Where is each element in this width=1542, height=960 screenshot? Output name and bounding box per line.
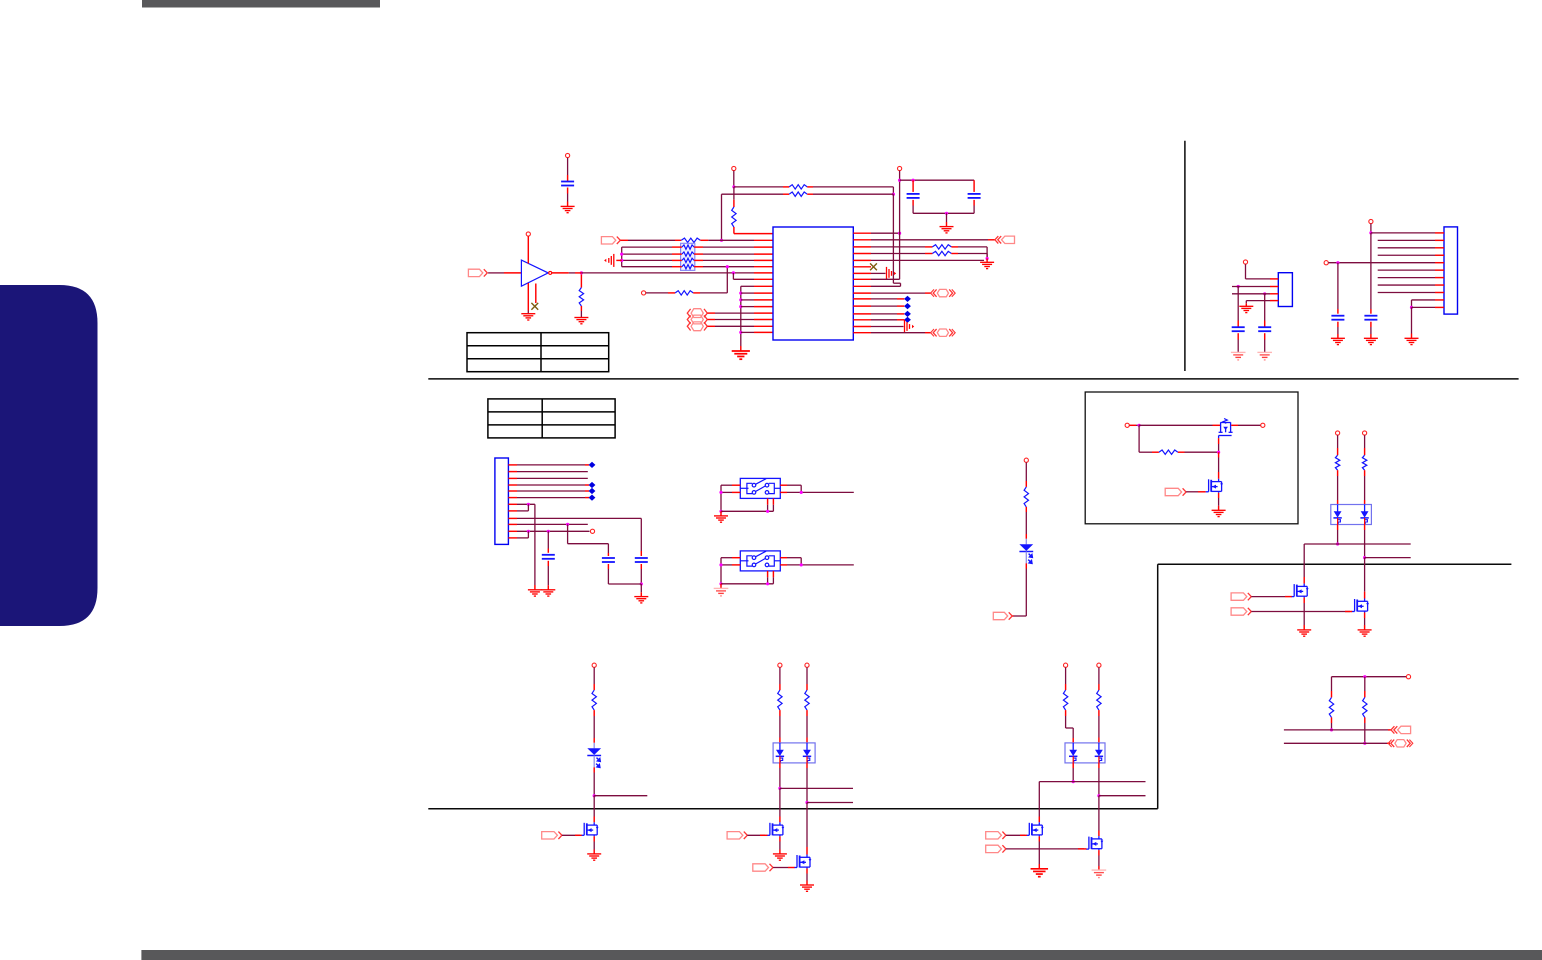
- node D2 vcc b: [1363, 431, 1367, 435]
- junction bus2 y293.1: [739, 292, 742, 295]
- wire C J4a drop: [547, 531, 549, 553]
- junction bus2 y299.9: [739, 298, 742, 301]
- wire RP line 1 right: [694, 246, 773, 248]
- wire LED1 c: [1012, 563, 1026, 616]
- wire bus2 pin 299.9: [741, 299, 773, 301]
- resistor LED2: [592, 690, 596, 710]
- wire J4 stub y531.3: [508, 530, 517, 532]
- node LED1 vcc: [1024, 458, 1028, 462]
- bottom gray footer bar: [141, 950, 1542, 960]
- junction J4 p10: [566, 523, 569, 526]
- wire V4: [1337, 263, 1339, 314]
- wire J4 stub y537.9: [508, 537, 517, 539]
- wire U1 right pin stub y266.8: [853, 266, 871, 268]
- wire diamond pin y313.9: [871, 313, 904, 315]
- transistor Q4 nmos: [1352, 599, 1368, 613]
- ground Q4: [1358, 630, 1372, 636]
- wire BM2 b mid: [1098, 710, 1100, 744]
- junction J3 p1: [1369, 231, 1372, 234]
- wire J4 stub y478.4: [508, 477, 517, 479]
- wire box to Q1: [1139, 424, 1220, 426]
- node J4 p11: [590, 529, 594, 533]
- wire Q7 drain: [806, 803, 808, 855]
- wire Q8 gate: [1006, 834, 1027, 836]
- wire R2 to port: [871, 239, 995, 241]
- junction V2 pin1: [898, 232, 901, 235]
- capacitor C J4b: [602, 558, 615, 562]
- wire Q5 source: [593, 836, 595, 854]
- ground buffer: [521, 314, 535, 320]
- section divider horizontal top: [428, 378, 1518, 380]
- terminal diamond y306.1: [904, 303, 911, 309]
- wire RP line 2 right: [694, 253, 773, 255]
- wire Q2 source: [1218, 493, 1220, 510]
- wire U1 right pin stub y326.5: [853, 326, 871, 328]
- node BM2 vcc b: [1097, 663, 1101, 667]
- revision table 2: [488, 399, 615, 438]
- ground RP rotated: [609, 254, 614, 267]
- wire RP line 3 left: [622, 259, 682, 261]
- wire J4 stub y524.4: [508, 523, 517, 525]
- node buf vcc: [526, 232, 530, 236]
- junction J3 p10: [1410, 306, 1413, 309]
- junction SW2 bottom pin: [766, 582, 769, 585]
- wire LED2 a: [593, 667, 595, 690]
- wire BM1 b top: [806, 667, 808, 690]
- no-connect U1 pin6R: [870, 263, 877, 270]
- terminal J4 p4: [589, 482, 596, 488]
- junction cap mid: [945, 212, 948, 215]
- resistor R pulldown: [579, 288, 583, 307]
- junction D2 b: [1363, 556, 1366, 559]
- junction J2 p3: [1263, 292, 1266, 295]
- resistor RP1: [682, 245, 694, 249]
- wire J4 p7-p8 tie: [517, 504, 528, 511]
- transistor Q8 nmos: [1026, 822, 1042, 836]
- wire Q6 gate: [747, 834, 767, 836]
- wire pin9L to bus: [741, 285, 773, 287]
- wire J4 stub y471.6: [508, 471, 517, 473]
- wire J3 p1: [1371, 232, 1435, 234]
- wire jumper 2: [708, 319, 774, 321]
- node VCC cap pair: [898, 166, 902, 170]
- wire J2 stub y300.6: [1270, 300, 1278, 302]
- ground J3c: [1405, 338, 1419, 344]
- terminal diamond y313.9: [904, 311, 911, 317]
- diode pack D4: [773, 743, 815, 763]
- capacitor C J4c: [635, 558, 648, 562]
- port input LED1: [993, 612, 1007, 619]
- wire R3R4 gnd stub: [986, 259, 988, 263]
- junction J4 p7: [527, 503, 530, 506]
- wire bus2 pin 293.1: [741, 292, 773, 294]
- wire Q9 source: [1098, 850, 1100, 870]
- wire LED2 c: [593, 767, 595, 795]
- wire D2 b down: [1364, 525, 1366, 558]
- wire jog to U1 pin8L: [733, 273, 773, 279]
- wire R1 to V2: [871, 232, 900, 234]
- left navy chapter tab: [0, 285, 98, 626]
- revision table 1: [467, 333, 609, 372]
- wire line2 drop: [721, 194, 723, 240]
- wire buf gnd pins: [528, 283, 536, 314]
- jumper J3: [691, 322, 703, 331]
- wire caps bottom link: [608, 583, 641, 585]
- wire J4 p2: [517, 471, 588, 473]
- connector J4: [495, 458, 509, 544]
- wire jumper 1: [708, 312, 774, 314]
- wire R5 stub: [871, 259, 984, 261]
- node BR vcc: [1406, 675, 1410, 679]
- wire SW1 gnd stub: [720, 511, 722, 516]
- ground pulldown: [574, 318, 588, 324]
- wire J3 pin y240.3: [1378, 239, 1435, 241]
- wire BM1 h2: [807, 802, 853, 804]
- wire pin2 line: [620, 239, 681, 241]
- wire J3 stub y299.9: [1435, 299, 1444, 301]
- ground J4 caps: [634, 597, 648, 603]
- wire BR b down: [1364, 717, 1366, 743]
- wire D2 a down: [1337, 525, 1339, 545]
- ground Q5: [587, 854, 601, 860]
- wire D2 b top: [1364, 435, 1366, 455]
- wire C J4b bottom: [607, 564, 609, 584]
- ground Q9: [1092, 870, 1107, 878]
- wire SW1 left pins: [721, 485, 740, 511]
- port input Q7 gate: [753, 864, 769, 871]
- junction caps bottom: [640, 582, 643, 585]
- connector J3: [1444, 227, 1458, 314]
- wire BM1 b mid: [806, 710, 808, 744]
- resistor R6: [675, 291, 693, 295]
- ground Q2: [1212, 510, 1226, 516]
- wire diamond pin y298.9: [871, 298, 904, 300]
- resistor RP4: [682, 265, 694, 269]
- wire RP line 4 right: [694, 266, 773, 268]
- capacitor C J3b: [1331, 316, 1344, 320]
- port bidir BR2: [1395, 740, 1406, 747]
- node LED2 vcc: [592, 663, 596, 667]
- wire J2 stub y293.8: [1270, 293, 1278, 295]
- wire Q6 drain: [779, 788, 781, 822]
- wire J4 p5: [517, 490, 589, 492]
- wire RP line 3 right: [694, 259, 773, 261]
- diode pack D2: [1331, 505, 1372, 525]
- wire D2 a top: [1337, 435, 1339, 455]
- wire C J2a gnd: [1237, 333, 1239, 352]
- wire line2 RB: [722, 193, 790, 195]
- wire J3 stub y232.9: [1435, 232, 1444, 234]
- section divider vertical top-right: [1184, 141, 1186, 371]
- wire U1 right pin stub y239.8: [853, 239, 871, 241]
- wire C J4a gnd: [547, 561, 549, 590]
- resistor RBM1b: [805, 690, 809, 710]
- switch SW2: [740, 551, 780, 571]
- capacitor C J3a: [1364, 316, 1377, 320]
- transistor Q2 nmos: [1206, 479, 1222, 493]
- wire J4 stub y510.9: [508, 510, 517, 512]
- wire box left: [1129, 424, 1139, 426]
- wire J2 p3: [1232, 293, 1270, 295]
- wire buf output: [552, 272, 773, 274]
- wire U1 right pin stub y246.9: [853, 246, 871, 248]
- wire Q1 gate: [1218, 438, 1220, 452]
- wire LED2 b: [593, 710, 595, 743]
- resistor RD2b: [1362, 455, 1366, 470]
- wire R4 b: [951, 254, 987, 259]
- capacitor C J2b: [1258, 327, 1271, 331]
- terminal diamond y298.9: [904, 296, 911, 302]
- port input Q3 gate: [1231, 593, 1247, 600]
- wire V2 vertical: [871, 180, 900, 279]
- wire V5: [1411, 307, 1413, 338]
- wire Q8 drain: [1038, 782, 1040, 823]
- wire V3: [1370, 233, 1372, 314]
- wire J4 stub y464.9: [508, 464, 517, 466]
- junction RB end: [892, 193, 895, 196]
- wire BM1 h1: [780, 787, 853, 789]
- switch SW1: [740, 478, 780, 498]
- wire Q9 gate: [1006, 848, 1086, 850]
- buffer output bubble: [549, 271, 552, 274]
- junction cap top: [898, 179, 901, 182]
- jumper J2: [691, 315, 703, 324]
- node J2 p1: [1243, 260, 1247, 264]
- wire vertical V1a: [893, 194, 900, 286]
- port output BR1: [1391, 726, 1397, 733]
- wire U1 right pin stub y319.8: [853, 319, 871, 321]
- wire J2 p2: [1232, 286, 1270, 288]
- jumper J1: [691, 309, 703, 318]
- section divider vertical mid-right: [1157, 564, 1159, 809]
- transistor Q6 nmos: [767, 822, 783, 836]
- node J3 vcc: [1369, 219, 1373, 223]
- port input Q8 gate: [986, 832, 1002, 839]
- junction D2 a: [1336, 542, 1339, 545]
- wire J3 stub y277.6: [1435, 277, 1444, 279]
- wire BM2 h1: [1039, 781, 1145, 783]
- ground R7 rotated: [887, 267, 892, 280]
- node VCC RA: [732, 166, 736, 170]
- wire R16 to port: [871, 332, 932, 334]
- wire C J3a gnd: [1370, 322, 1372, 339]
- wire BR top: [1332, 676, 1407, 678]
- ground J2a: [1231, 352, 1246, 360]
- wire J4 p1: [517, 464, 589, 466]
- wire D2 h2: [1365, 557, 1411, 559]
- wire J3 pin y247.8: [1378, 247, 1435, 249]
- wire D2 h1: [1304, 543, 1411, 545]
- port input Q5 gate: [542, 832, 558, 839]
- LED D1: [1025, 539, 1027, 545]
- wire caps gnd: [640, 584, 642, 597]
- wire BR a down: [1331, 717, 1333, 730]
- node D2 vcc a: [1336, 431, 1340, 435]
- transistor Q5 nmos: [581, 822, 597, 836]
- wire R to gnd: [580, 306, 582, 318]
- wire cap b leads: [973, 180, 975, 192]
- wire J2 stub y286.5: [1270, 286, 1278, 288]
- wire J4 stub y491: [508, 490, 517, 492]
- wire bus2 pin 306.6: [741, 306, 773, 308]
- wire RP line 2 left: [622, 253, 682, 255]
- wire U1 right pin stub y286.3: [853, 285, 871, 287]
- resistor RP2: [682, 252, 694, 256]
- wire R9: [871, 285, 901, 287]
- port input pin2: [601, 237, 615, 244]
- junction J3 p5: [1336, 261, 1339, 264]
- ground SW1: [714, 516, 728, 522]
- resistor R3s: [932, 245, 951, 249]
- capacitor C1: [561, 182, 574, 186]
- wire J3 pin y285.1: [1378, 284, 1435, 286]
- wire box R right: [1178, 451, 1219, 453]
- wire J4 stub y485: [508, 484, 517, 486]
- junction J2 p2: [1237, 285, 1240, 288]
- wire bus2 pin 332.4: [741, 331, 773, 333]
- wire BM2 b down: [1098, 763, 1100, 796]
- wire line1 RA right: [807, 187, 893, 194]
- resistor pack RP box: [681, 243, 695, 270]
- wire line2 RB right: [807, 193, 893, 195]
- wire J4 p3: [517, 477, 588, 479]
- ground J2 p4: [1239, 306, 1253, 312]
- wire SW2 right: [780, 558, 854, 565]
- wire Q4 source: [1364, 613, 1366, 630]
- wire BM2 a top: [1065, 667, 1067, 690]
- wire jumper 3: [708, 325, 774, 327]
- wire U1 right pin stub y298.9: [853, 298, 871, 300]
- wire C J3b gnd: [1337, 322, 1339, 339]
- wire Q6 source: [779, 836, 781, 854]
- junction BR b: [1363, 742, 1366, 745]
- junction SW1 gnd: [719, 510, 722, 513]
- wire RP gnd bus: [621, 247, 623, 267]
- IC U1: [773, 227, 853, 340]
- port input Q9 gate: [986, 845, 1002, 852]
- node R6: [642, 291, 646, 295]
- wire R15: [871, 326, 904, 328]
- wire cap gnd: [946, 213, 948, 226]
- wire RP gnd stub: [616, 259, 621, 261]
- terminal J4 p6: [589, 495, 596, 501]
- ground SW2: [714, 588, 729, 596]
- ground J4 b: [541, 590, 555, 596]
- wire BR h1: [1284, 729, 1391, 731]
- terminal J4 p1: [589, 462, 596, 468]
- wire cap a bottom: [913, 200, 946, 213]
- wire diamond pin y319.8: [871, 319, 904, 321]
- wire BM1 a mid: [779, 710, 781, 744]
- wire J2 p4: [1246, 301, 1270, 307]
- wire U1 right pin stub y306.1: [853, 305, 871, 307]
- wire J3 stub y285.1: [1435, 284, 1444, 286]
- junction SW1 bottom pin: [766, 510, 769, 513]
- wire J3 p5: [1328, 262, 1435, 264]
- junction RP bus a: [620, 253, 623, 256]
- capacitor Cb: [968, 194, 981, 198]
- resistor RC: [732, 207, 736, 227]
- wire U1 right pin stub y260.4: [853, 259, 871, 261]
- wire J3 stub y292.5: [1435, 292, 1444, 294]
- resistor RD2a: [1335, 455, 1339, 470]
- transistor Q7 nmos: [794, 855, 810, 869]
- capacitor C J2a: [1232, 327, 1245, 331]
- ground R15 rotated: [905, 320, 910, 333]
- node box right: [1261, 423, 1265, 427]
- node BM2 vcc a: [1064, 663, 1068, 667]
- wire bus2 vertical: [740, 286, 742, 351]
- wire BM1 a down: [779, 763, 781, 789]
- wire J3 p11: [1412, 306, 1436, 308]
- wire diamond pin y306.1: [871, 305, 904, 307]
- wire R6 right: [693, 267, 727, 293]
- ground J4 a: [528, 590, 542, 596]
- junction BM2 b: [1097, 794, 1100, 797]
- wire R3 b: [951, 247, 987, 259]
- resistor RA: [789, 185, 807, 189]
- wire Q1 right: [1231, 424, 1261, 426]
- wire J4 stub y518.4: [508, 517, 517, 519]
- port bidir R16: [937, 329, 948, 336]
- wire Q3 drain: [1303, 544, 1305, 584]
- junction box gate: [1217, 451, 1220, 454]
- junction SW2 out: [800, 563, 803, 566]
- ground Q7: [800, 885, 814, 891]
- LED D3: [593, 743, 595, 749]
- wire Q2 gate: [1186, 491, 1205, 493]
- wire C1: [567, 158, 569, 182]
- wire BM1 b down: [806, 763, 808, 803]
- wire BM1 a top: [779, 667, 781, 690]
- wire V6 to gnd: [534, 504, 536, 590]
- wire J3 pin y292.5: [1378, 292, 1435, 294]
- ground bus2: [732, 351, 750, 359]
- wire C1 to ground: [567, 188, 569, 207]
- junction bus2 y332.4: [739, 331, 742, 334]
- wire BM2 b top: [1098, 667, 1100, 690]
- wire SW1 bottom: [721, 498, 773, 511]
- wire BM2 a mid: [1066, 710, 1074, 744]
- wire BM2 h2: [1099, 795, 1146, 797]
- wire U1 right pin stub y332.7: [853, 332, 871, 334]
- wire U1 right pin stub y233.2: [853, 232, 871, 234]
- resistor LED1: [1024, 487, 1028, 507]
- junction to pin8: [732, 271, 735, 274]
- wire buf vcc: [527, 236, 529, 263]
- wire cap a leads: [912, 180, 914, 192]
- wire LED1 b: [1025, 507, 1027, 539]
- junction BR top: [1363, 675, 1366, 678]
- junction LED2: [593, 794, 596, 797]
- junction BM1 a: [778, 787, 781, 790]
- ground R3R4: [980, 262, 994, 268]
- junction SW2 left: [719, 563, 722, 566]
- terminal J4 p5: [589, 488, 596, 494]
- wire C J4c bottom: [640, 564, 642, 584]
- junction SW1 out: [800, 491, 803, 494]
- wire J3 stub y255.2: [1435, 254, 1444, 256]
- wire U1 right pin stub y279.3: [853, 278, 871, 280]
- wire Q9 drain: [1098, 796, 1100, 836]
- wire J3 stub y270.1: [1435, 269, 1444, 271]
- ground J3b: [1331, 338, 1345, 344]
- wire J4 stub y497.6: [508, 497, 517, 499]
- wire J3 vcc stub: [1370, 224, 1372, 233]
- op-amp buffer U2: [521, 260, 548, 286]
- wire SW2 gnd stub: [720, 584, 722, 589]
- junction box: [1138, 424, 1141, 427]
